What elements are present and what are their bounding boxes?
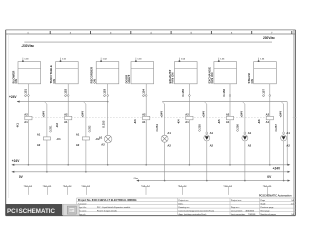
indicator lamp H2 <box>161 135 168 142</box>
wire +24V branch column 5 <box>205 102 207 104</box>
svg-text:A1: A1 <box>167 131 171 135</box>
svg-text:LIGHT: LIGHT <box>127 75 131 84</box>
terminal circle output 2 <box>67 95 69 97</box>
net +24V distribution line left segment <box>17 101 108 103</box>
rail lamp return arrow right <box>288 180 291 182</box>
signal lamp H4 fill <box>243 136 247 140</box>
relay coil K5 <box>226 116 233 120</box>
terminal circle output 3 <box>107 95 109 97</box>
wire +24V branch column 6 <box>243 102 245 104</box>
svg-text:A2: A2 <box>37 143 41 147</box>
svg-text:1.06: 1.06 <box>260 59 265 61</box>
PLC output box channel 1 (BLOWER ON) <box>18 62 41 84</box>
svg-text:Last correction:: Last correction: <box>231 213 246 216</box>
svg-text:Constructed (approved,nostroke: Constructed (approved,nostroke=True): <box>179 210 215 213</box>
svg-text:O.257: O.257 <box>274 124 278 132</box>
svg-text:Page: Page <box>261 200 266 202</box>
svg-text:1.02: 1.02 <box>103 59 108 61</box>
frame bottom border <box>6 215 296 217</box>
svg-text:FAN ON: FAN ON <box>171 73 175 84</box>
terminal circle output 7 <box>269 95 271 97</box>
svg-text:+24V: +24V <box>159 111 163 118</box>
svg-text:+24V: +24V <box>240 111 244 118</box>
svg-text:A2: A2 <box>248 144 252 148</box>
terminal reference at x=67.7 <box>64 186 71 188</box>
net 230V/ac top line <box>24 41 272 43</box>
terminal circle output 5 <box>189 95 191 97</box>
svg-text:O.156: O.156 <box>222 89 226 97</box>
svg-text:ON: ON <box>14 79 18 83</box>
svg-text:Panel 1 Outputs details: Panel 1 Outputs details <box>97 210 117 213</box>
svg-text:7.1: 7.1 <box>87 185 91 187</box>
svg-text:Project no.:: Project no.: <box>179 199 190 202</box>
title block table <box>77 197 296 199</box>
pin stub top of box 3 <box>100 58 102 62</box>
terminal reference at x=47.5 <box>44 186 51 188</box>
svg-text:A2: A2 <box>286 144 290 148</box>
wire +24V branch column 7 <box>281 102 283 104</box>
wire PLC output O.155 <box>188 84 190 165</box>
svg-text:1.00: 1.00 <box>24 59 29 61</box>
frame right border <box>293 30 295 216</box>
terminal reference at x=86.3 <box>83 186 90 188</box>
rail 0V arrow right <box>288 171 291 173</box>
rail +24V bottom <box>12 164 288 166</box>
svg-text:Appr. (settings,nostroke=True): Appr. (settings,nostroke=True): <box>179 213 207 216</box>
svg-text:DCC:: DCC: <box>179 204 184 206</box>
svg-text:+24V: +24V <box>81 111 85 118</box>
svg-text:O.153: O.153 <box>103 89 107 97</box>
svg-text:+24V: +24V <box>273 167 281 171</box>
svg-text:Last printed:: Last printed: <box>231 210 243 213</box>
svg-text:PLC - Liquid details Expansion: PLC - Liquid details Expansion module <box>97 206 130 209</box>
svg-text:ON: ON <box>92 79 96 83</box>
relay mechanical link dashed line <box>32 116 273 118</box>
svg-text:7/1/2005: 7/1/2005 <box>248 214 255 216</box>
PLC output box channel 5 (EXHAUST FAN ON) <box>175 62 198 84</box>
svg-text:A1: A1 <box>185 120 189 124</box>
drawing frame top reference strip <box>6 29 296 31</box>
wire +24V branch column 1 <box>45 102 47 104</box>
wire PLC output O.154 <box>145 84 147 165</box>
net +24V distribution line right segment <box>162 101 287 103</box>
svg-text:1:1: 1:1 <box>291 204 294 206</box>
signal lamp H5 fill <box>282 136 286 140</box>
svg-text:Scale: Scale <box>261 204 266 206</box>
frame column ticks <box>49 31 51 34</box>
svg-text:A1: A1 <box>266 120 270 124</box>
svg-text:A1: A1 <box>210 131 214 135</box>
rail 0V arrow left <box>12 171 15 173</box>
relay coil C1 <box>43 137 50 140</box>
svg-text:A2: A2 <box>185 113 189 117</box>
terminal reference at x=28.4 <box>25 186 32 188</box>
svg-text:+24V: +24V <box>42 111 46 118</box>
svg-text:-K2: -K2 <box>55 123 59 128</box>
terminal reference at x=267.6 <box>264 186 271 188</box>
svg-text:7.1: 7.1 <box>147 185 151 187</box>
svg-text:A2: A2 <box>167 144 171 148</box>
svg-text:Project rev.:: Project rev.: <box>231 199 242 202</box>
svg-text:Previous page: Previous page <box>261 207 274 209</box>
pin stub top of box 5 <box>178 58 180 62</box>
rail lamp return bottom <box>139 180 288 182</box>
indicator lamp H3 <box>204 135 210 141</box>
pin stub top of box 4 <box>135 58 137 62</box>
svg-text:O.154: O.154 <box>141 89 145 97</box>
svg-text:7.1: 7.1 <box>29 185 33 187</box>
svg-text:0Vac: 0Vac <box>134 178 139 180</box>
relay coil K2 <box>65 116 72 120</box>
svg-text:ON: ON <box>250 79 254 83</box>
svg-text:O.253: O.253 <box>102 120 106 128</box>
svg-text:4/14/2005: 4/14/2005 <box>246 210 254 213</box>
terminal reference at x=228.3 <box>225 186 232 188</box>
svg-text:A1: A1 <box>76 133 80 137</box>
svg-text:230V/ac: 230V/ac <box>263 36 275 40</box>
svg-text:0V: 0V <box>19 175 24 179</box>
wire PLC output O.156 <box>229 84 231 165</box>
indicator lamp H5 <box>281 135 287 141</box>
svg-text:A2: A2 <box>101 143 105 147</box>
svg-text:-K5: -K5 <box>217 119 221 124</box>
svg-text:7.1: 7.1 <box>229 185 233 187</box>
svg-text:7.1: 7.1 <box>269 185 273 187</box>
svg-text:-C1: -C1 <box>56 137 61 141</box>
relay coil K3 <box>143 116 150 120</box>
svg-text:Next page: Next page <box>261 210 270 213</box>
svg-text:FAN ON: FAN ON <box>210 73 214 84</box>
svg-text:1.04: 1.04 <box>181 58 186 61</box>
PLC output box channel 2 (TURN TABLE ON) <box>56 62 79 84</box>
svg-text:A1: A1 <box>142 120 146 124</box>
svg-text:Project No. 8404 CHEVA LT ELEC: Project No. 8404 CHEVA LT ELECTRICAL WIR… <box>78 199 137 202</box>
PLC output box channel 4 (DOOR LIGHT) <box>131 62 154 84</box>
wire +24V branch column 2 <box>84 102 86 104</box>
svg-text:-K6: -K6 <box>257 119 261 124</box>
svg-text:1.05: 1.05 <box>220 59 225 61</box>
wire right drop from +24V line <box>286 102 288 165</box>
svg-text:O.151: O.151 <box>24 89 28 97</box>
svg-text:7.1: 7.1 <box>184 185 188 187</box>
svg-text:A1: A1 <box>99 136 103 140</box>
PLC output box channel 7 (STEAM ON) <box>254 62 277 84</box>
pin stub top of box 6 <box>218 58 220 62</box>
wire PLC output O.157 <box>269 84 271 165</box>
svg-text:A1: A1 <box>24 120 28 124</box>
svg-text:A2: A2 <box>226 113 230 117</box>
svg-text:1.03: 1.03 <box>137 59 142 61</box>
svg-text:7.1: 7.1 <box>48 185 52 187</box>
pin stub top of box 1 <box>22 58 24 62</box>
svg-text:A1: A1 <box>286 131 290 135</box>
svg-text:+24V: +24V <box>278 111 282 118</box>
svg-text:A2: A2 <box>76 143 80 147</box>
svg-text:-K1: -K1 <box>15 123 19 128</box>
rail lamp return arrow left <box>136 180 139 182</box>
svg-text:A2: A2 <box>24 113 28 117</box>
net arrow +24V left <box>17 101 20 103</box>
svg-text:Number of pages: Number of pages <box>261 214 276 216</box>
PLC output box channel 3 (RECORDER ON) <box>96 62 119 84</box>
svg-text:PCSCHEMATIC Automation: PCSCHEMATIC Automation <box>259 194 292 197</box>
frame row tick right <box>293 117 297 119</box>
indicator lamp H4 <box>242 135 248 141</box>
indicator lamp H1 <box>104 135 112 143</box>
signal lamp H3 fill <box>205 136 209 140</box>
terminal reference at x=182.7 <box>179 186 186 188</box>
rail +24V arrow left <box>12 164 15 166</box>
svg-text:Page no.:: Page no.: <box>231 207 240 209</box>
svg-text:-K3: -K3 <box>133 119 137 124</box>
relay coil K4 <box>186 116 193 120</box>
svg-text:A2: A2 <box>64 113 68 117</box>
svg-text:+24V: +24V <box>9 95 17 99</box>
svg-text:A2: A2 <box>210 144 214 148</box>
PLC output box channel 6 (EXCHANGE FAN ON) <box>214 62 237 84</box>
svg-text:A1: A1 <box>37 133 41 137</box>
svg-text:7.1: 7.1 <box>69 185 73 187</box>
terminal circle output 6 <box>229 95 231 97</box>
svg-text:+24V: +24V <box>12 159 20 163</box>
svg-text:O.152: O.152 <box>63 89 67 97</box>
terminal circle output 1 <box>28 95 30 97</box>
logo icon square <box>63 204 79 215</box>
relay coil K6 <box>266 116 273 120</box>
wire PLC output O.151 <box>27 84 29 165</box>
svg-text:O.157: O.157 <box>261 89 265 97</box>
svg-text:A1: A1 <box>226 120 230 124</box>
relay coil K1 <box>25 116 32 120</box>
svg-text:A1: A1 <box>248 131 252 135</box>
svg-text:A1: A1 <box>64 120 68 124</box>
svg-text:1.01: 1.01 <box>62 59 67 61</box>
svg-text:O.252: O.252 <box>89 125 92 132</box>
frame left border <box>5 30 7 216</box>
wire PLC output O.153 <box>107 84 109 165</box>
svg-text:+24V: +24V <box>202 111 206 118</box>
pin stub top of box 2 <box>60 58 62 62</box>
svg-text:ON: ON <box>52 79 56 83</box>
svg-text:O.155: O.155 <box>181 89 185 97</box>
rail 0V bottom <box>12 171 288 173</box>
svg-text:-K4: -K4 <box>176 119 180 124</box>
svg-text:-230V/ac: -230V/ac <box>21 44 34 48</box>
relay coil C2 <box>82 137 89 140</box>
rail +24V arrow right <box>288 164 291 166</box>
PCSCHEMATIC logo <box>6 204 62 215</box>
svg-text:0V: 0V <box>267 175 272 179</box>
svg-text:O.254: O.254 <box>155 124 159 132</box>
wire +24V branch column 4 <box>162 102 164 104</box>
svg-text:O.251: O.251 <box>50 125 53 132</box>
svg-text:A2: A2 <box>266 113 270 117</box>
pin stub top of box 7 <box>258 58 260 62</box>
svg-text:O.255: O.255 <box>197 124 201 132</box>
terminal reference at x=146.0 <box>142 186 149 188</box>
svg-text:A2: A2 <box>142 113 146 117</box>
wire PLC output O.152 <box>67 84 69 165</box>
terminal circle output 4 <box>145 95 147 97</box>
svg-text:O.256: O.256 <box>236 124 240 132</box>
svg-text:Drawing no.:: Drawing no.: <box>179 207 191 209</box>
svg-text:SCHEMATIC: SCHEMATIC <box>19 208 56 215</box>
